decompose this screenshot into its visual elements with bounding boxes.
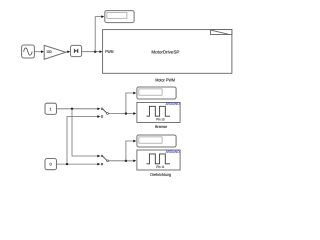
wire const0 branch up to switch1 bottom input (67, 115, 100, 164)
wire gain to zero-order-hold (66, 50, 70, 53)
wire const1 branch down to switch2 top input (72, 109, 100, 158)
wire branch up to scope (top) (95, 15, 104, 51)
svg-text:Pin 10: Pin 10 (156, 118, 164, 122)
model badge icon (top-right corner of driver block) (210, 30, 232, 35)
manual switch 2 (101, 155, 108, 165)
Arduino digital output block Pin 10 (137, 102, 180, 122)
Arduino digital output block Pin 11 (137, 150, 180, 170)
manual switch 1 (101, 108, 108, 118)
wire switch1 to Arduino digital output pin 10 (108, 112, 136, 115)
wire branch up to scope Pin 11 (126, 140, 136, 161)
svg-text:MotorDriveSP: MotorDriveSP (151, 49, 179, 54)
gain block value 100 (44, 45, 66, 59)
svg-text:PWM: PWM (105, 49, 114, 54)
scope block group2 (137, 135, 176, 147)
scope block group1 (137, 87, 176, 99)
svg-text:1: 1 (50, 106, 52, 111)
wire switch2 to Arduino digital output pin 11 (108, 159, 136, 162)
svg-text:ARDUINO: ARDUINO (166, 102, 180, 106)
sine wave source block (22, 45, 35, 58)
constant block value 0 (45, 159, 57, 170)
junction node on PWM wire (94, 51, 96, 53)
svg-text:Pin 11: Pin 11 (156, 165, 164, 169)
junction node on const0 wire (66, 163, 68, 165)
motor driver subsystem block (103, 30, 232, 74)
svg-text:Drehrichtung: Drehrichtung (150, 172, 172, 177)
wire const1 to switch1 top input (57, 107, 101, 110)
wire ZOH to PWM input of driver block (82, 50, 103, 53)
wire const0 to switch2 bottom input (57, 163, 101, 166)
wire sine to gain (34, 50, 44, 53)
zero-order hold block (bowtie icon) (71, 45, 82, 56)
svg-text:ARDUINO: ARDUINO (166, 150, 180, 154)
junction node on switch2 output wire (125, 160, 127, 162)
junction node on const1 wire (71, 108, 73, 110)
constant block value 1 (45, 103, 57, 114)
scope block top (PWM scope) (105, 11, 134, 23)
svg-text:Bremse: Bremse (155, 124, 168, 129)
wire branch up to scope Pin 10 (126, 92, 136, 114)
junction node on switch1 output wire (125, 112, 127, 114)
svg-text:100: 100 (46, 50, 51, 54)
svg-text:Motor PWM: Motor PWM (155, 77, 175, 82)
